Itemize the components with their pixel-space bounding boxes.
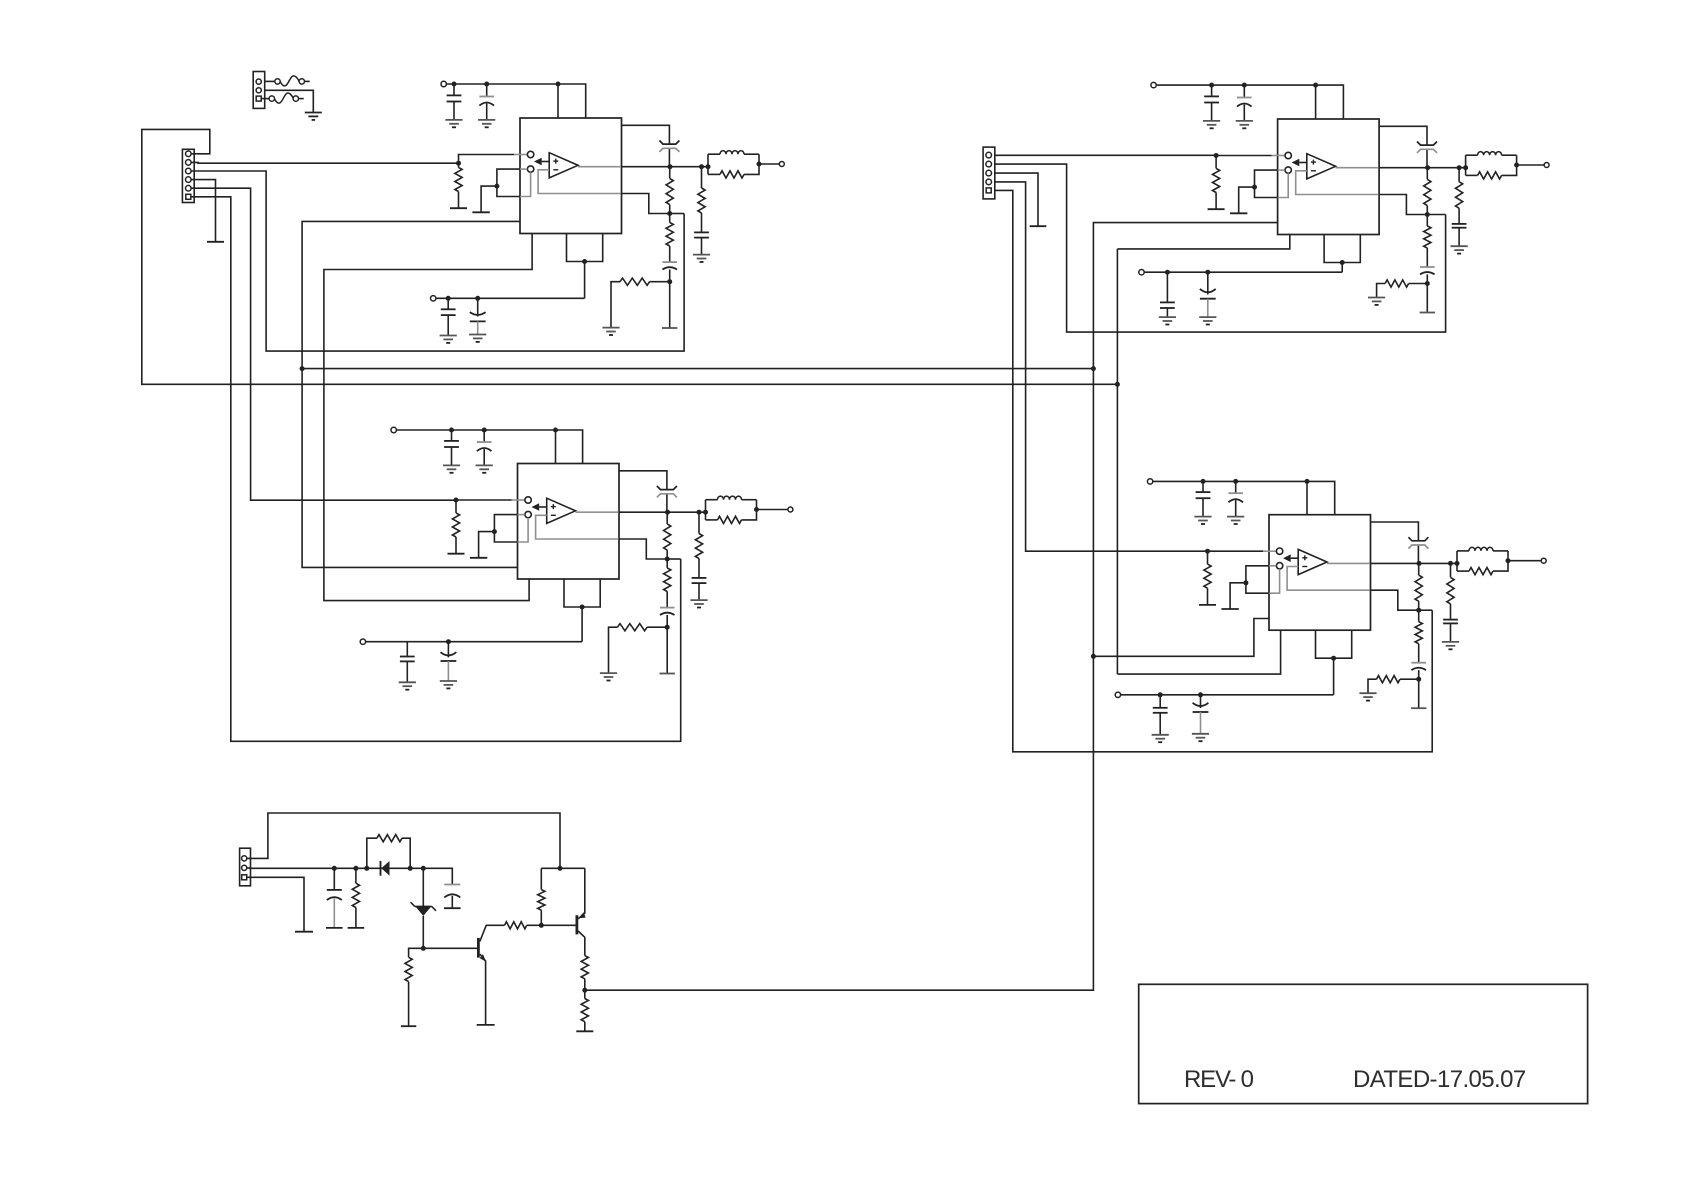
resistor feedback R2 U4 bbox=[1415, 610, 1422, 663]
resistor feedback R1 U1 bbox=[666, 167, 673, 214]
pin 2 J1 bbox=[186, 160, 192, 166]
ground V- Cd U3 bbox=[1159, 317, 1176, 324]
transistor Q1 base bar bbox=[477, 938, 480, 958]
terminal output U3 bbox=[1544, 163, 1549, 168]
ground Cb U1 bbox=[478, 120, 495, 127]
node V+ U3 junction B bbox=[1242, 83, 1247, 88]
wire feedback to ground U1 bbox=[669, 282, 671, 328]
arrow input mute U1 bbox=[534, 158, 549, 166]
node V+ U2 junction B bbox=[482, 428, 487, 433]
ground Rin U2 bbox=[448, 553, 465, 555]
pin 1 circle U3 bbox=[1285, 152, 1291, 158]
node feedback tap U4 bbox=[1416, 608, 1421, 613]
pin 2 circle U2 bbox=[525, 511, 531, 517]
wire feedback link U4 bbox=[1419, 609, 1433, 611]
node PSU right rail bbox=[558, 866, 563, 871]
terminal V- U2 bbox=[360, 639, 365, 644]
resistor feedback Rg U3 bbox=[1377, 280, 1428, 298]
connector J3 mains (3-pin) body bbox=[253, 72, 265, 109]
resistor tank Rt U1 bbox=[708, 154, 759, 178]
node V+ U3 junction C bbox=[1313, 83, 1318, 88]
capacitor feedback Cf U3 (polarized) bbox=[1420, 267, 1435, 284]
resistor PSU R5 bbox=[538, 868, 545, 925]
ground V- Ce U3 bbox=[1199, 317, 1216, 324]
node V- junction B U1 bbox=[475, 296, 480, 301]
wire feedback to ground U4 bbox=[1418, 679, 1420, 708]
arrow input mute U3 bbox=[1292, 159, 1307, 167]
node V+ U3 junction A bbox=[1209, 83, 1214, 88]
wire J1 pin6 to U2 feedback bbox=[191, 197, 681, 742]
wire input to pin1 U2 bbox=[456, 499, 525, 501]
pin 1 circle U2 bbox=[525, 497, 531, 503]
ground feedback chain U3 bbox=[1420, 312, 1435, 314]
ground feedback chain U1 bbox=[662, 327, 677, 329]
node V+ U4 junction A bbox=[1201, 479, 1206, 484]
capacitor V- Cd U2 bbox=[400, 642, 415, 683]
wire pin2 loop U1 bbox=[497, 169, 531, 196]
capacitor feedback Cf U2 (polarized) bbox=[660, 608, 675, 628]
ground Rin U3 bbox=[1208, 208, 1225, 210]
wire inverting feedback path U4 bbox=[1287, 567, 1419, 611]
terminal V- U3 bbox=[1139, 270, 1144, 275]
ground zobel U2 bbox=[690, 600, 707, 607]
wire U stub to V- U1 bbox=[584, 262, 586, 299]
resistor input Rin U3 bbox=[1213, 156, 1220, 210]
capacitor feedback Cf U1 (polarized) bbox=[662, 262, 677, 282]
title block text REV bbox=[1184, 1066, 1254, 1093]
resistor zobel Rz U2 bbox=[695, 512, 702, 578]
wire J1 pin2 to U1 input bbox=[191, 161, 458, 164]
capacitor bypass Cb U4 (polarized) bbox=[1228, 481, 1243, 516]
ground J2 pin3 bbox=[1030, 225, 1047, 227]
ground PSU R1 bbox=[348, 927, 365, 929]
ground Ca U2 bbox=[443, 465, 460, 472]
node V+ U1 junction C bbox=[556, 82, 561, 87]
terminal V+ U2 bbox=[391, 427, 396, 432]
node V- junction B U4 bbox=[1198, 692, 1203, 697]
node pin2 loop junction U4 bbox=[1243, 580, 1248, 585]
node feedback tap U1 bbox=[667, 211, 672, 216]
wire V+ stub into IC U4 bbox=[1306, 481, 1308, 514]
resistor feedback R1 U2 bbox=[664, 512, 671, 559]
node PSU rail C bbox=[364, 866, 369, 871]
wire bottom pins U U3 bbox=[1324, 235, 1360, 263]
wire input to pin1 U4 bbox=[1208, 550, 1277, 552]
node tank right U2 bbox=[754, 507, 759, 512]
ground PSU R3 bbox=[401, 1025, 416, 1027]
wire to output terminal U2 bbox=[757, 509, 788, 511]
resistor feedback Rg U2 bbox=[609, 624, 668, 674]
op-amp triangle U3 bbox=[1307, 154, 1336, 179]
wire U stub to V- U2 bbox=[581, 607, 583, 642]
terminal output U4 bbox=[1541, 558, 1546, 563]
wire zener to Q1 base bbox=[423, 947, 477, 949]
capacitor bypass Cb U2 (polarized) bbox=[477, 430, 492, 465]
node PSU rail D bbox=[408, 866, 413, 871]
transistor Q2 collector bbox=[578, 931, 585, 956]
transistor Q2 emitter bbox=[578, 868, 585, 919]
wire inverting feedback path U2 bbox=[536, 515, 668, 559]
capacitor bypass Ca U4 bbox=[1196, 481, 1211, 516]
resistor zobel Rz U3 bbox=[1456, 168, 1463, 224]
node input junction U3 bbox=[1214, 153, 1219, 158]
pin 1 circle U1 bbox=[527, 151, 533, 157]
wire output U2 bbox=[576, 511, 706, 513]
wire pin2 ground branch U2 bbox=[479, 532, 495, 558]
ground J3 bbox=[305, 113, 322, 120]
ground Q1 emitter bbox=[477, 1024, 495, 1026]
terminal V- U1 bbox=[431, 296, 436, 301]
node input junction U4 bbox=[1205, 549, 1210, 554]
node U junction U4 bbox=[1331, 656, 1336, 661]
capacitor V- Cd U3 bbox=[1160, 272, 1175, 317]
svg-text:REV- 0: REV- 0 bbox=[1184, 1066, 1254, 1093]
capacitor V- Ce U4 (polarized) bbox=[1193, 695, 1209, 734]
wire inverting feedback path U3 bbox=[1296, 171, 1428, 215]
wire output U1 bbox=[578, 166, 708, 168]
pin 4 J1 bbox=[186, 177, 192, 183]
wire V- rail U3 bbox=[1144, 271, 1342, 273]
node U junction U1 bbox=[582, 259, 587, 264]
node input junction U1 bbox=[456, 161, 461, 166]
node zobel tap U4 bbox=[1448, 561, 1453, 566]
capacitor feedback Cf U4 (polarized) bbox=[1411, 663, 1426, 680]
terminal V- U4 bbox=[1115, 692, 1120, 697]
wire V+ rail U4 bbox=[1153, 481, 1335, 514]
node zobel tap U3 bbox=[1457, 165, 1462, 170]
node tank left U2 bbox=[703, 510, 708, 515]
ground pin2 branch U1 bbox=[472, 211, 489, 213]
wire V- rail U1 bbox=[436, 297, 585, 299]
node tank left U3 bbox=[1463, 165, 1468, 170]
op-amp triangle U1 bbox=[549, 153, 578, 178]
resistor feedback Rg U4 bbox=[1368, 676, 1419, 694]
op-amp IC U2 package outline bbox=[518, 464, 620, 580]
capacitor zobel Cz U4 bbox=[1443, 620, 1458, 642]
terminal V+ U4 bbox=[1147, 479, 1152, 484]
wire bus1 right vertical bbox=[585, 223, 1278, 991]
resistor PSU R7 bbox=[581, 990, 588, 1031]
op-amp IC U4 package outline bbox=[1269, 515, 1371, 631]
pin 1 circle U4 bbox=[1276, 548, 1282, 554]
capacitor comp Cc U3 bbox=[1417, 142, 1437, 153]
capacitor bypass Ca U3 bbox=[1204, 85, 1219, 121]
node output U1 bbox=[668, 164, 673, 169]
wire J2 pin5 to U4 feedback bbox=[995, 190, 1432, 751]
wire V+ rail U1 bbox=[446, 84, 585, 118]
pin 2 circle U3 bbox=[1285, 167, 1291, 173]
resistor input Rin U2 bbox=[452, 500, 459, 554]
wire feedback link U1 bbox=[670, 213, 684, 215]
resistor zobel Rz U1 bbox=[698, 167, 705, 233]
ground V- Ce U4 bbox=[1192, 734, 1209, 741]
capacitor bypass Ca U2 bbox=[444, 430, 459, 465]
resistor feedback R2 U3 bbox=[1424, 215, 1431, 268]
wire J1 pin1 to bus2 bbox=[142, 129, 1118, 384]
connector J4 supply (3-pin) body bbox=[240, 848, 251, 886]
node V- junction B U3 bbox=[1205, 270, 1210, 275]
node zobel tap U1 bbox=[699, 164, 704, 169]
pin 4 J2 bbox=[986, 179, 992, 185]
node pin2 loop junction U2 bbox=[492, 529, 497, 534]
ground Rin U1 bbox=[450, 207, 467, 209]
capacitor comp Cc U2 bbox=[657, 486, 677, 497]
wire to output terminal U1 bbox=[759, 163, 779, 165]
node bus1 right bbox=[1091, 366, 1096, 371]
arrow input mute U4 bbox=[1283, 554, 1298, 562]
wire comp-cap branch U2 bbox=[619, 471, 667, 512]
inductor L1 U1 bbox=[708, 151, 759, 175]
connector J2 input (5-pin) body bbox=[983, 147, 995, 199]
wire J2 pin1 to U3 input bbox=[995, 154, 1216, 156]
svg-text:DATED-17.05.07: DATED-17.05.07 bbox=[1353, 1066, 1526, 1093]
resistor feedback R1 U3 bbox=[1424, 168, 1431, 215]
node V+ U1 junction A bbox=[452, 82, 457, 87]
wire comp-cap branch U3 bbox=[1379, 126, 1427, 167]
wire pin2 ground branch U4 bbox=[1230, 583, 1246, 609]
capacitor V- Ce U2 (polarized) bbox=[441, 642, 457, 681]
capacitor PSU C1 (polarized) bbox=[327, 868, 342, 928]
ground pin2 branch U4 bbox=[1221, 608, 1238, 610]
wire feedback to ground U2 bbox=[666, 627, 668, 673]
node tank right U4 bbox=[1506, 558, 1511, 563]
ground Cb U4 bbox=[1227, 517, 1244, 524]
ground Ca U3 bbox=[1203, 121, 1220, 128]
node tank left U1 bbox=[706, 164, 711, 169]
title block text DATED bbox=[1353, 1066, 1526, 1093]
ground feedback chain U2 bbox=[660, 673, 675, 675]
node U junction U3 bbox=[1340, 260, 1345, 265]
wire V+ rail U3 bbox=[1156, 85, 1343, 119]
pin 3 J3 (square) bbox=[256, 96, 261, 101]
inductor L1 U3 bbox=[1466, 152, 1517, 176]
node tank left U4 bbox=[1455, 561, 1460, 566]
node bus2 tap bbox=[1115, 382, 1120, 387]
ground feedback chain U4 bbox=[1411, 707, 1426, 709]
fuse F1 bbox=[275, 76, 310, 86]
ground zobel U1 bbox=[693, 255, 710, 262]
wire feedback link U3 bbox=[1427, 214, 1445, 216]
wire pin2 ground branch U1 bbox=[481, 186, 497, 212]
node pin2 loop junction U3 bbox=[1252, 185, 1257, 190]
capacitor V- Cd U4 bbox=[1153, 695, 1168, 735]
wire U3 pinA bbox=[1117, 234, 1289, 249]
node PSU output bbox=[582, 988, 587, 993]
capacitor zobel Cz U1 bbox=[694, 232, 709, 254]
wire feedback link U2 bbox=[667, 558, 681, 560]
resistor PSU R1 bbox=[352, 868, 359, 928]
capacitor zobel Cz U3 bbox=[1452, 224, 1467, 246]
pin 2 circle U4 bbox=[1276, 563, 1282, 569]
capacitor V- Cd U1 bbox=[441, 298, 456, 335]
node V+ U1 junction B bbox=[484, 82, 489, 87]
pin 1 J3 bbox=[256, 79, 261, 84]
transistor Q1 emitter bbox=[480, 954, 486, 1025]
ground PSU R7 bbox=[576, 1030, 593, 1032]
wire J1 pin4 to ground bbox=[191, 180, 215, 242]
ground Cb U3 bbox=[1236, 121, 1253, 128]
wire J3 pin1 to fuse F1 bbox=[265, 80, 275, 82]
pin 1 J4 bbox=[242, 856, 247, 861]
node feedback bottom U3 bbox=[1425, 281, 1430, 286]
ground Ca U4 bbox=[1194, 517, 1211, 524]
resistor tank Rt U4 bbox=[1457, 551, 1508, 575]
ground V- Cd U2 bbox=[399, 682, 416, 689]
node zobel tap U2 bbox=[697, 510, 702, 515]
node zener base bbox=[421, 946, 426, 951]
wire bus1 standby net bbox=[302, 221, 520, 567]
node output U4 bbox=[1417, 561, 1422, 566]
ground Rin U4 bbox=[1199, 604, 1216, 606]
node V+ U4 junction C bbox=[1305, 479, 1310, 484]
capacitor zobel Cz U2 bbox=[692, 578, 707, 600]
op-amp IC U3 package outline bbox=[1278, 119, 1380, 235]
ground V- Cd U1 bbox=[440, 336, 457, 343]
node V- junction A U3 bbox=[1165, 270, 1170, 275]
ground Rg U4 bbox=[1359, 693, 1376, 700]
resistor PSU R2 bypass bbox=[367, 835, 410, 869]
pin 3 J4 (square) bbox=[242, 875, 247, 880]
node feedback bottom U2 bbox=[665, 625, 670, 630]
node PSU rail B bbox=[353, 866, 358, 871]
wire U4 pinA bbox=[1117, 630, 1280, 674]
node U junction U2 bbox=[580, 605, 585, 610]
pin 3 J1 bbox=[186, 168, 192, 174]
ground Ca U1 bbox=[445, 120, 462, 127]
node bus1 U4 tap bbox=[1091, 654, 1096, 659]
wire U1 pinA to U2 pinA bbox=[324, 234, 532, 601]
wire bus2 vertical right bbox=[1116, 249, 1118, 674]
node input junction U2 bbox=[454, 498, 459, 503]
ground Rg U1 bbox=[602, 328, 619, 335]
wire J4 pin1 top route bbox=[247, 813, 560, 868]
node bus1 left bbox=[300, 366, 305, 371]
wire J2 pin3 to ground bbox=[995, 173, 1038, 226]
op-amp triangle U4 bbox=[1298, 549, 1327, 574]
terminal output U1 bbox=[779, 162, 784, 167]
capacitor bypass Ca U1 bbox=[447, 84, 462, 120]
wire pin2 loop U4 bbox=[1246, 566, 1280, 593]
terminal V+ U3 bbox=[1151, 82, 1156, 87]
node tank right U1 bbox=[757, 162, 762, 167]
inductor L1 U2 bbox=[706, 496, 757, 520]
wire V+ stub into IC U3 bbox=[1315, 85, 1317, 119]
wire to output terminal U4 bbox=[1508, 560, 1541, 562]
wire bottom pins U U4 bbox=[1316, 630, 1352, 658]
pin 5 J2 (square) bbox=[986, 188, 991, 193]
node Q2 base net bbox=[539, 923, 544, 928]
wire bus1 to U4 left pin bbox=[1093, 619, 1269, 657]
capacitor comp Cc U4 bbox=[1408, 537, 1428, 548]
ground Cb U2 bbox=[476, 465, 493, 472]
node feedback bottom U4 bbox=[1416, 677, 1421, 682]
wire V+ stub into IC U2 bbox=[555, 430, 557, 464]
wire inverting feedback path U1 bbox=[538, 170, 670, 214]
resistor PSU R4 bbox=[486, 922, 542, 929]
wire comp-cap branch U1 bbox=[622, 125, 670, 166]
ground V- Ce U2 bbox=[440, 681, 457, 688]
op-amp triangle U2 bbox=[547, 498, 576, 523]
wire PSU right rail bbox=[541, 867, 585, 869]
wire V- rail U2 bbox=[366, 641, 582, 643]
pin 3 J2 bbox=[986, 170, 992, 176]
capacitor PSU C2 (polarized) bbox=[444, 885, 460, 909]
wire J3 pin2 to ground bbox=[265, 90, 314, 112]
title block border bbox=[1139, 984, 1588, 1103]
ground zobel U3 bbox=[1451, 246, 1468, 253]
resistor zobel Rz U4 bbox=[1447, 563, 1454, 619]
wire V+ stub into IC U1 bbox=[557, 84, 559, 118]
resistor input Rin U1 bbox=[455, 163, 462, 208]
wire pin2 ground branch U3 bbox=[1239, 187, 1255, 213]
terminal output U2 bbox=[788, 507, 793, 512]
resistor feedback R1 U4 bbox=[1415, 563, 1422, 610]
wire U stub to V- U3 bbox=[1341, 263, 1343, 273]
ground V- Cd U4 bbox=[1152, 735, 1169, 742]
node feedback tap U2 bbox=[665, 557, 670, 562]
wire J4 pin2 rail bbox=[247, 868, 452, 885]
resistor feedback R2 U1 bbox=[666, 214, 673, 263]
node V- junction A U4 bbox=[1158, 692, 1163, 697]
resistor feedback Rg U1 bbox=[611, 278, 670, 328]
wire comp-cap branch U4 bbox=[1371, 522, 1419, 563]
wire Q2 base link bbox=[541, 924, 575, 926]
ground pin2 branch U2 bbox=[470, 557, 487, 559]
pin 2 J4 bbox=[242, 865, 247, 870]
ground pin2 branch U3 bbox=[1230, 212, 1247, 214]
resistor PSU R3 bbox=[405, 948, 423, 1026]
wire bottom pins U U2 bbox=[564, 579, 600, 607]
inductor L1 U4 bbox=[1457, 547, 1508, 571]
terminal V+ U1 bbox=[441, 81, 446, 86]
pin 1 J1 bbox=[186, 151, 192, 157]
node feedback bottom U1 bbox=[667, 279, 672, 284]
node pin2 loop junction U1 bbox=[494, 184, 499, 189]
transistor Q2 base bar bbox=[576, 915, 579, 934]
node tank right U3 bbox=[1514, 163, 1519, 168]
node PSU rail A bbox=[332, 866, 337, 871]
ground Rg U3 bbox=[1368, 298, 1385, 305]
resistor input Rin U4 bbox=[1204, 551, 1211, 605]
node V+ U4 junction B bbox=[1233, 479, 1238, 484]
fuse F2 bbox=[269, 93, 304, 103]
ground PSU C1 bbox=[326, 927, 343, 929]
wire feedback to ground U3 bbox=[1426, 284, 1428, 313]
pin 2 J2 bbox=[986, 161, 992, 167]
capacitor comp Cc U1 bbox=[659, 141, 679, 152]
wire J1 pin5 to U2 input bbox=[191, 188, 456, 500]
capacitor bypass Cb U3 (polarized) bbox=[1237, 85, 1252, 121]
node V- junction A U1 bbox=[446, 296, 451, 301]
node V- junction B U2 bbox=[446, 639, 451, 644]
pin 6 J1 (square) bbox=[186, 194, 191, 199]
capacitor V- Ce U3 (polarized) bbox=[1200, 272, 1216, 317]
node feedback tap U3 bbox=[1425, 212, 1430, 217]
capacitor V- Ce U1 (polarized) bbox=[470, 298, 486, 334]
wire input to pin1 U3 bbox=[1216, 155, 1285, 157]
wire J4 pin3 to ground bbox=[247, 877, 304, 931]
arrow input mute U2 bbox=[532, 503, 547, 511]
wire bottom pins U U1 bbox=[567, 234, 603, 262]
resistor tank Rt U2 bbox=[706, 500, 757, 524]
ground PSU C2 bbox=[444, 907, 461, 909]
pin 1 J2 bbox=[986, 152, 992, 158]
wire J2 pin2 to U3 feedback bbox=[995, 164, 1446, 332]
node V+ U2 junction C bbox=[553, 428, 558, 433]
wire J2 pin4 to U4 input bbox=[995, 182, 1208, 551]
pin 2 circle U1 bbox=[527, 166, 533, 172]
wire J1 pin3 to U1 feedback bbox=[191, 171, 684, 351]
